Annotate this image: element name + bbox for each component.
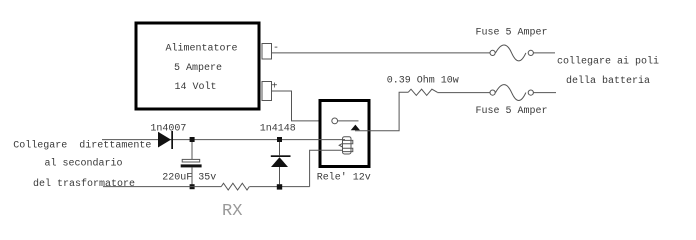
minus terminal tab	[262, 44, 272, 60]
relay NO contact triangle	[351, 125, 360, 131]
wire junction to capacitor top plate	[191, 142, 193, 159]
svg-text:0.39 Ohm 10w: 0.39 Ohm 10w	[387, 75, 459, 87]
wire bottom node up to relay coil return	[310, 150, 343, 186]
wire transformer secondary bottom	[103, 186, 221, 188]
node junction diode D2 bottom	[277, 184, 282, 189]
svg-text:collegare ai poli: collegare ai poli	[557, 56, 659, 68]
wire minus output to fuse F1	[272, 52, 491, 54]
resistor RX zigzag	[221, 183, 249, 190]
wire resistor to fuse F2	[437, 92, 490, 94]
relay coil L1	[339, 137, 353, 154]
svg-text:Alimentatore: Alimentatore	[166, 42, 238, 54]
wire transformer secondary top to relay coil	[102, 139, 345, 141]
wire fuse F1 to battery positive	[533, 52, 555, 54]
wire plus output to relay common	[272, 91, 320, 121]
plus terminal tab	[262, 82, 272, 101]
svg-text:RX: RX	[222, 202, 242, 221]
svg-text:Collegare direttamente: Collegare direttamente	[13, 139, 151, 151]
diode D2 1n4148	[271, 142, 291, 185]
svg-text:della batteria: della batteria	[566, 75, 650, 87]
svg-text:del trasformatore: del trasformatore	[33, 178, 135, 190]
node junction bottom of capacitor	[190, 184, 195, 189]
svg-text:Fuse 5 Amper: Fuse 5 Amper	[476, 28, 548, 39]
svg-text:1n4007: 1n4007	[150, 123, 186, 134]
wire fuse F2 to battery negative	[533, 92, 556, 94]
relay contact arm wire	[338, 120, 359, 122]
wire resistor RX to diode D2 node	[249, 186, 309, 188]
capacitor C1 220uF	[181, 159, 202, 167]
svg-text:1n4148: 1n4148	[260, 124, 296, 135]
wire relay NO output to resistor	[355, 92, 408, 131]
resistor 0.39 Ohm zigzag	[408, 89, 437, 95]
svg-text:Rele' 12v: Rele' 12v	[317, 172, 371, 184]
relay K1 box	[320, 101, 369, 167]
relay common contact circle	[332, 118, 338, 124]
power supply box PS1	[136, 23, 259, 109]
node junction diode D2 top	[277, 137, 282, 142]
node junction top of capacitor	[190, 137, 195, 142]
fuse F2	[490, 85, 533, 101]
wire capacitor bottom plate to bottom node	[191, 167, 193, 184]
svg-text:5 Ampere: 5 Ampere	[174, 63, 222, 74]
svg-text:al secondario: al secondario	[45, 158, 123, 170]
fuse F1	[490, 45, 533, 61]
svg-text:14 Volt: 14 Volt	[175, 81, 217, 93]
svg-text:220uF 35v: 220uF 35v	[162, 173, 216, 184]
svg-text:Fuse 5 Amper: Fuse 5 Amper	[476, 106, 548, 117]
diode D1 1n4007	[158, 131, 173, 149]
